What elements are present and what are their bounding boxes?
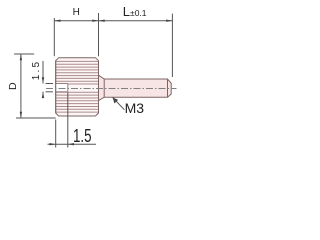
label 1.5 bottom bbox=[73, 127, 92, 145]
dimension D extension top bbox=[14, 53, 34, 55]
dimension 1.5 hole depth: dimension line and arrows bbox=[48, 143, 97, 145]
leader arrow M3 bbox=[113, 97, 125, 109]
dimension 1.5 hole dia: extension lines bbox=[46, 83, 54, 85]
head left face line bbox=[55, 61, 57, 113]
label M3 bbox=[125, 101, 144, 115]
screw shaft body with root shoulder and end chamfer bbox=[99, 75, 172, 100]
dimension line L bbox=[99, 20, 173, 22]
label 1.5 rotated bbox=[32, 59, 42, 81]
dimension 1.5 hole depth: extension lines bbox=[55, 120, 57, 148]
head right face line bbox=[98, 61, 100, 113]
center line bbox=[46, 88, 177, 90]
pilot hole in head left face bbox=[56, 84, 67, 91]
label L±0.1 bbox=[123, 5, 147, 20]
knurl lines upper bbox=[56, 61, 99, 84]
label H bbox=[73, 8, 80, 18]
dimension D extension bottom bbox=[16, 117, 56, 119]
dimension line H bbox=[54, 20, 98, 22]
dimension line D bbox=[20, 54, 22, 118]
knurled head outline bbox=[56, 58, 99, 116]
label D rotated bbox=[7, 76, 18, 96]
shared extension line head right bbox=[98, 13, 100, 56]
dimension 1.5 hole dia: dimension line and arrows bbox=[42, 61, 44, 84]
dimension L extension line right bbox=[171, 14, 173, 77]
knurl lines lower bbox=[56, 92, 99, 112]
thread end chamfer line bbox=[167, 79, 169, 97]
dimension H extension line left bbox=[53, 18, 55, 56]
thread start line bbox=[103, 79, 105, 97]
